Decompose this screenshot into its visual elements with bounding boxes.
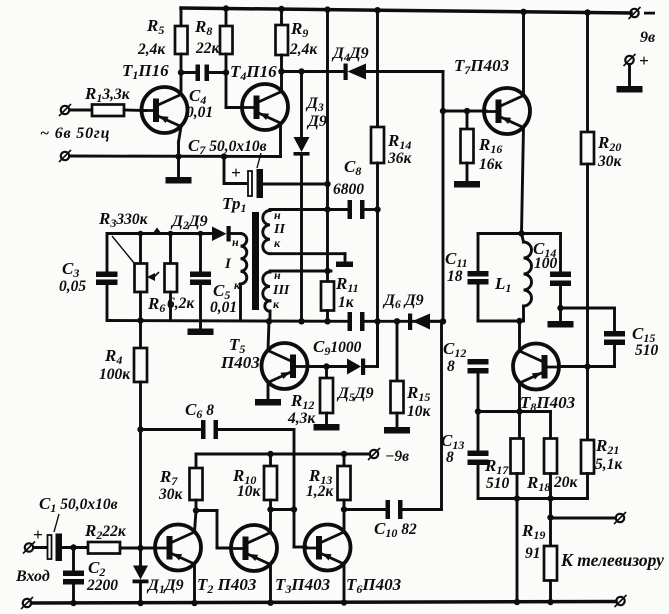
node: T2 collector junction <box>193 507 199 513</box>
svg-text:Т6П403: Т6П403 <box>346 575 402 596</box>
diode D2 D9 <box>170 213 241 242</box>
wire: output tap to terminal <box>551 517 616 520</box>
capacitor C15 510 <box>604 324 659 367</box>
node: D3 bottom junction <box>298 318 304 324</box>
svg-text:Д6 Д9: Д6 Д9 <box>382 292 424 311</box>
terminal: input Vhod upper <box>23 542 35 554</box>
svg-text:+: + <box>33 525 43 544</box>
svg-text:9в: 9в <box>640 29 655 46</box>
wire: rail x327 from bus to R11 <box>326 10 329 271</box>
svg-text:16к: 16к <box>479 156 504 173</box>
ground under R16 <box>454 181 480 188</box>
capacitor C7 50,0x10v electrolytic <box>188 136 328 198</box>
node: rail junction D1 <box>137 600 143 606</box>
svg-text:Т1П16: Т1П16 <box>122 61 169 82</box>
svg-text:R13,3к: R13,3к <box>84 84 131 105</box>
svg-text:22к: 22к <box>195 40 221 57</box>
resistor R17 510 <box>484 439 524 499</box>
resistor R14 36k <box>371 10 413 366</box>
node: rail junction C2 <box>70 600 76 606</box>
terminal: + supply with ground <box>617 51 649 93</box>
resistor R13 1,2k <box>306 454 351 510</box>
svg-text:к: к <box>234 278 241 292</box>
node: C8 right junction <box>374 206 380 212</box>
wire: tap y411 to R18 <box>478 412 551 439</box>
node: bus junction R14 <box>374 7 380 13</box>
wire: T2 collector to T3 base <box>196 511 231 549</box>
resistor R20 30k <box>581 13 623 367</box>
svg-text:5,1к: 5,1к <box>595 456 623 473</box>
capacitor C4 0,01 <box>181 65 226 122</box>
node: rail junction R17 line <box>514 599 520 605</box>
transformer core <box>252 212 259 310</box>
transistor T2 P403 <box>155 511 257 604</box>
svg-text:I: I <box>224 256 232 272</box>
svg-text:4,3к: 4,3к <box>287 410 316 427</box>
resistor R8 22k <box>194 9 233 73</box>
node: D6 / T7-base-line junction <box>440 318 446 324</box>
svg-text:2,4к: 2,4к <box>137 41 166 58</box>
svg-text:Д5Д9: Д5Д9 <box>336 385 374 404</box>
svg-text:2200: 2200 <box>86 577 118 594</box>
svg-text:R3330к: R3330к <box>98 209 149 230</box>
node: R13 top junction <box>341 451 347 457</box>
terminal: -9V top right <box>629 7 656 46</box>
svg-text:10к: 10к <box>237 483 262 500</box>
svg-text:91: 91 <box>525 545 541 562</box>
capacitor C14 100 <box>533 234 571 309</box>
node: R3 wiper mark <box>153 228 162 234</box>
node: R12 top junction <box>323 363 329 369</box>
wire: T8 base to C15 <box>559 365 615 368</box>
node: R4 top / pot bottom junction <box>137 317 143 323</box>
node: R10 top junction <box>267 451 273 457</box>
svg-text:к: к <box>274 236 281 250</box>
node: rail junction R19 <box>547 599 553 605</box>
svg-text:2,4к: 2,4к <box>289 41 318 58</box>
node: junction on C6 drop <box>291 506 297 512</box>
svg-text:6800: 6800 <box>333 181 364 198</box>
node: T8 collector / tank junction <box>516 318 522 324</box>
transistor T4 P16 <box>230 62 288 157</box>
wire: C14 node to C15 <box>561 308 615 331</box>
wire: ground rail bottom <box>32 602 617 604</box>
diode D3 D9 <box>294 72 327 322</box>
node: T7 base junction <box>440 108 446 114</box>
capacitor C3 0,05 <box>59 234 118 321</box>
svg-text:8: 8 <box>446 449 454 466</box>
resistor R7 30k <box>158 454 203 511</box>
svg-text:Т4П16: Т4П16 <box>230 62 277 83</box>
node: rail junction T3 emitter <box>267 600 273 606</box>
capacitor C13 8 <box>441 412 489 499</box>
wire: terminal to R1 <box>70 109 93 112</box>
node: R17 bottom junction <box>514 495 520 501</box>
potentiometer R3 <box>135 234 160 321</box>
svg-text:0,01: 0,01 <box>210 299 237 316</box>
capacitor C2 2200 <box>63 548 118 604</box>
capacitor C12 8 <box>443 339 489 412</box>
node: C8 left junction <box>324 206 330 212</box>
ground under T1 emitter <box>166 177 192 184</box>
transistor T6 P403 <box>305 510 402 604</box>
transformer winding I <box>224 234 247 321</box>
node: R18 bottom junction <box>547 495 553 501</box>
svg-text:н: н <box>274 208 281 222</box>
svg-text:II: II <box>273 222 285 237</box>
resistor R9 2,4k <box>276 9 319 72</box>
terminal: output upper <box>614 512 626 524</box>
diode D5 D9 <box>308 321 378 404</box>
svg-text:+: + <box>639 51 649 70</box>
svg-text:1к: 1к <box>338 294 355 311</box>
svg-text:510: 510 <box>486 475 510 492</box>
ground under R12 <box>314 424 340 431</box>
node: C4 / R8 / T4 base junction <box>223 69 229 75</box>
svg-text:8: 8 <box>447 358 455 375</box>
svg-text:36к: 36к <box>387 150 413 167</box>
node: T1 collector / R5 / C4 junction <box>178 69 184 75</box>
svg-text:1,2к: 1,2к <box>306 483 334 500</box>
transistor T5 P403 <box>220 321 308 399</box>
node: rail junction T6 emitter <box>341 599 347 605</box>
capacitor C9 1000 <box>313 312 365 358</box>
node: output tap junction <box>547 514 553 520</box>
wire: tank bottom node y321 <box>478 320 524 323</box>
transformer winding III <box>263 268 331 321</box>
svg-text:н: н <box>232 235 239 249</box>
terminal: -9v mid <box>368 448 409 465</box>
ground under C14 <box>548 308 574 328</box>
node: C5 top junction <box>198 231 204 237</box>
wire: T4 collector bus to D4 <box>282 70 345 73</box>
transformer winding II <box>263 208 353 267</box>
resistor R11 1k <box>321 271 359 321</box>
svg-text:Д9: Д9 <box>306 113 327 130</box>
node: bus junction R8 <box>223 5 229 11</box>
transistor T3 P403 <box>231 510 331 604</box>
node: C2 top junction <box>70 544 76 550</box>
transistor T1 P16 <box>122 61 188 177</box>
node: C9 right / R14-line junction <box>374 318 380 324</box>
node: R11 bottom junction <box>324 318 330 324</box>
wire: C7 branch from input wire <box>221 153 248 183</box>
resistor R16 16k <box>461 111 504 181</box>
resistor R4 100k <box>99 321 147 566</box>
svg-text:н: н <box>274 268 281 282</box>
node: C14 bottom junction <box>557 305 563 311</box>
node: R15 top junction <box>394 318 400 324</box>
svg-text:0,05: 0,05 <box>59 278 86 295</box>
resistor R2 22k <box>84 521 155 554</box>
svg-text:100к: 100к <box>99 366 131 383</box>
svg-text:III: III <box>272 283 290 298</box>
resistor R10 10k <box>232 454 277 510</box>
svg-text:−9в: −9в <box>385 448 409 465</box>
svg-text:Д4Д9: Д4Д9 <box>331 45 369 64</box>
wire: -9v mid bus y454 <box>196 453 370 456</box>
node: T3 collector / R10 junction <box>267 506 273 512</box>
wire: T4 base drop <box>226 73 243 108</box>
node: R16 top junction <box>464 108 470 114</box>
svg-text:Д2Д9: Д2Д9 <box>170 213 208 232</box>
resistor R15 10k <box>391 321 432 427</box>
diode D4 D9 <box>331 45 443 80</box>
wire: R3 top bus y233 <box>107 232 212 235</box>
node: T8 emitter / tap wire junction <box>516 408 522 414</box>
svg-text:510: 510 <box>635 342 659 359</box>
ground under C5 <box>188 321 214 336</box>
node: rail junction T2 emitter <box>191 600 197 606</box>
wire: lower input terminal to T1 emitter <box>70 155 281 158</box>
svg-text:П403: П403 <box>220 353 260 372</box>
node: T2 base / R4 line junction <box>137 545 143 551</box>
resistor R21 5,1k <box>581 367 623 499</box>
svg-text:Т2 П403: Т2 П403 <box>197 575 257 596</box>
capacitor C11 18 <box>445 234 489 322</box>
inductor L1 <box>494 234 532 322</box>
node: T4 collector / R9 junction <box>278 68 284 74</box>
svg-text:30к: 30к <box>597 153 623 170</box>
svg-text:Вход: Вход <box>15 568 50 585</box>
node: bus junction T7 emitter <box>520 9 526 15</box>
svg-text:18: 18 <box>447 268 463 285</box>
wire: R17 line down to ground rail <box>516 499 519 604</box>
diode D1 D9 <box>133 566 184 604</box>
wire: tank top node y233 <box>478 232 561 235</box>
svg-text:30к: 30к <box>158 486 184 503</box>
node: C12/C13 tap junction <box>475 408 481 414</box>
node: R11 top / winding junction <box>324 268 330 274</box>
node: C6 wire junction on R4 line <box>137 426 143 432</box>
resistor R6 6,2k <box>147 234 195 321</box>
svg-text:R222к: R222к <box>84 521 127 542</box>
wire: R10 bottom to C6 drop <box>271 508 295 511</box>
node: bus junction R20 <box>584 9 590 15</box>
terminal: input ~6V lower <box>59 150 71 162</box>
capacitor C8 6800 <box>328 157 378 219</box>
svg-text:+: + <box>231 163 241 182</box>
node: winding III k / T5 collector junction <box>266 318 272 324</box>
svg-text:20к: 20к <box>553 474 579 491</box>
node: D3 top junction <box>298 68 304 74</box>
svg-text:Т7П403: Т7П403 <box>454 56 510 77</box>
svg-text:0,01: 0,01 <box>186 104 213 121</box>
resistor R18 20k <box>526 439 579 518</box>
terminal: input Vhod lower <box>21 597 33 609</box>
svg-text:100: 100 <box>534 255 558 272</box>
svg-text:10к: 10к <box>407 403 432 420</box>
capacitor C6 8 <box>141 400 295 439</box>
node: T6 collector / R13 junction <box>341 506 347 512</box>
wire: D4 to T7 base vertical x443 <box>443 72 486 322</box>
wire: top -9V supply bus <box>181 8 631 13</box>
transistor T7 P403 <box>454 12 530 234</box>
svg-text:Т3П403: Т3П403 <box>275 575 331 596</box>
diode D6 D9 <box>382 292 443 330</box>
resistor R19 91 <box>521 518 557 604</box>
svg-text:Д1Д9: Д1Д9 <box>146 577 184 596</box>
wire: long node y321 from C3 to D6 line <box>107 319 443 323</box>
capacitor C10 82 <box>344 323 442 541</box>
node: C7 / rail x327 junction <box>324 181 330 187</box>
svg-text:~ 6в 50гц: ~ 6в 50гц <box>40 125 110 142</box>
resistor R1 3,3k <box>84 84 146 116</box>
transistor T8 P403 <box>513 321 576 439</box>
resistor R5 2,4k <box>137 8 188 73</box>
node: bus junction rail x327 <box>324 6 330 12</box>
capacitor C5 0,01 <box>190 234 237 321</box>
ground under T5 emitter <box>255 399 281 406</box>
node: R6 top junction <box>168 231 174 237</box>
node: R20 / R21 / T8 base junction <box>584 363 590 369</box>
label R3 330k <box>98 209 149 264</box>
svg-text:C91000: C91000 <box>313 337 362 358</box>
wire: bottom divider node y498 <box>478 497 588 500</box>
svg-text:6,2к: 6,2к <box>167 295 195 312</box>
svg-text:к: к <box>273 297 280 311</box>
capacitor C1 50,0x10v electrolytic <box>34 494 118 561</box>
node: bus junction R9 <box>278 6 284 12</box>
svg-text:К телевизору: К телевизору <box>560 550 664 570</box>
terminal: input ~6V upper <box>59 104 71 116</box>
terminal: output lower right <box>615 595 627 607</box>
wire: C6 to T6 base drop x294 <box>294 430 306 548</box>
resistor R12 4,3k <box>287 367 333 428</box>
ground under R15 <box>384 427 410 434</box>
node: pot top junction <box>138 231 144 237</box>
node: T7 collector / tank junction <box>518 230 524 236</box>
